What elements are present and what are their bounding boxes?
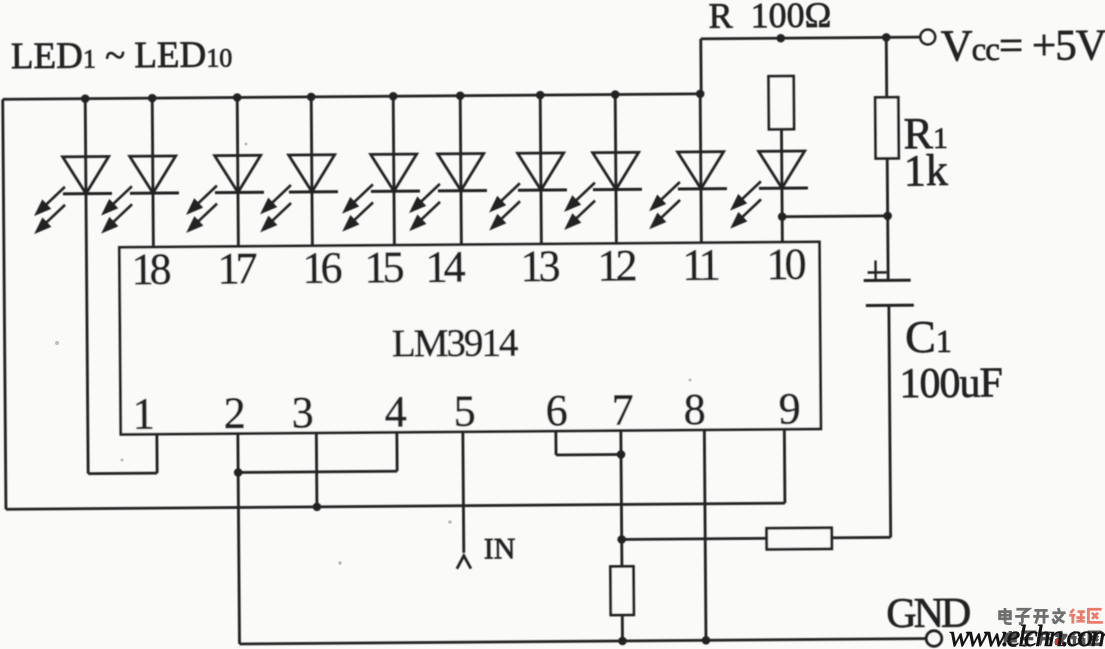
svg-text:LM3914: LM3914: [392, 321, 518, 365]
svg-text:11: 11: [682, 240, 719, 289]
svg-text:17: 17: [217, 244, 256, 293]
svg-text:www.elchn.com: www.elchn.com: [949, 618, 1105, 649]
svg-text:100uF: 100uF: [899, 360, 1002, 407]
svg-text:9: 9: [778, 384, 800, 433]
svg-text:2: 2: [223, 388, 245, 437]
svg-text:10: 10: [766, 240, 805, 289]
svg-text:Vcc= +5V: Vcc= +5V: [941, 20, 1105, 70]
svg-text:5: 5: [453, 387, 475, 436]
svg-text:8: 8: [683, 385, 705, 434]
svg-text:1: 1: [132, 389, 154, 438]
svg-text:18: 18: [131, 244, 170, 293]
svg-text:R 100Ω: R 100Ω: [708, 0, 831, 36]
svg-text:IN: IN: [484, 532, 516, 565]
svg-text:4: 4: [384, 387, 406, 436]
svg-text:LED1 ~ LED10: LED1 ~ LED10: [11, 35, 233, 78]
svg-text:1k: 1k: [904, 146, 948, 195]
svg-text:15: 15: [364, 243, 403, 292]
svg-text:16: 16: [302, 243, 341, 292]
svg-text:7: 7: [611, 385, 633, 434]
svg-text:3: 3: [291, 388, 313, 437]
svg-text:6: 6: [545, 386, 567, 435]
svg-text:13: 13: [520, 241, 559, 290]
svg-text:14: 14: [425, 242, 465, 291]
svg-text:12: 12: [597, 241, 635, 290]
